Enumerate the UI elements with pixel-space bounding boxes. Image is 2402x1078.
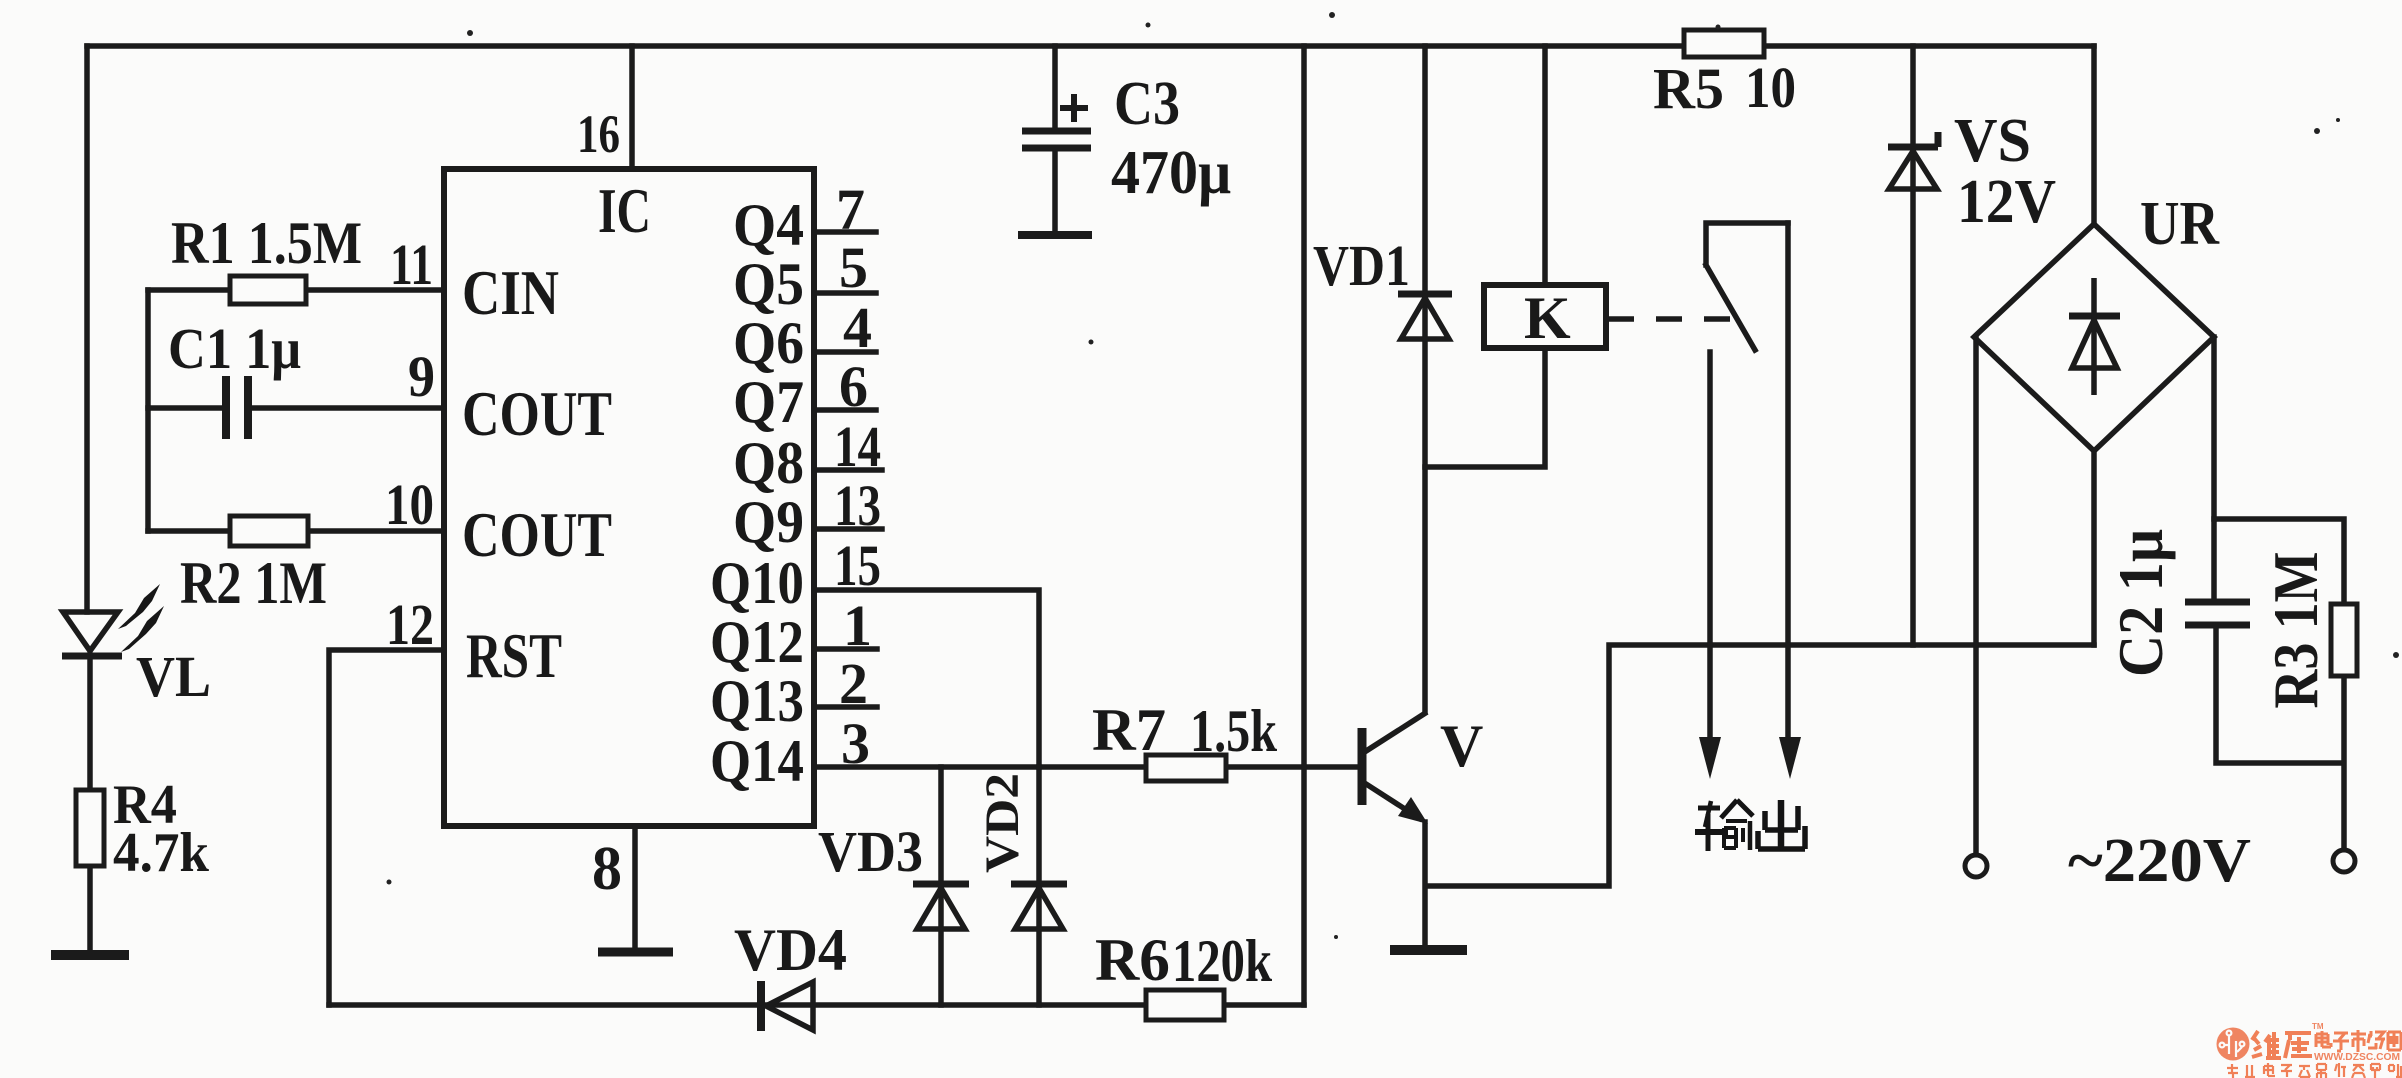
svg-text:VL: VL [136,644,211,709]
svg-text:TM: TM [2312,1022,2324,1031]
svg-text:K: K [1524,285,1571,351]
svg-text:C3: C3 [1114,70,1180,138]
svg-text:CIN: CIN [462,257,559,328]
svg-text:VD4: VD4 [734,917,847,983]
svg-text:V: V [1440,713,1483,779]
svg-text:VD3: VD3 [818,819,923,884]
svg-text:RST: RST [466,620,562,691]
svg-text:2: 2 [839,651,868,716]
svg-text:11: 11 [390,232,433,297]
svg-text:Q9: Q9 [733,489,804,555]
svg-text:R2 1M: R2 1M [180,550,327,616]
svg-text:13: 13 [834,473,881,538]
svg-text:WWW.DZSC.COM: WWW.DZSC.COM [2314,1051,2400,1063]
svg-text:5: 5 [839,235,868,300]
svg-text:12: 12 [386,592,434,657]
svg-text:R3 1M: R3 1M [2260,552,2331,709]
svg-text:3: 3 [841,711,870,776]
svg-text:14: 14 [834,414,881,479]
svg-text:6: 6 [839,354,868,419]
svg-text:Q14: Q14 [710,728,804,794]
svg-text:470μ: 470μ [1111,139,1231,207]
svg-text:~220V: ~220V [2068,827,2251,895]
svg-text:7: 7 [836,177,865,242]
svg-text:C1 1μ: C1 1μ [168,316,301,381]
svg-text:16: 16 [577,104,620,164]
svg-text:Q7: Q7 [733,369,804,435]
svg-text:10: 10 [1745,55,1796,120]
svg-text:Q4: Q4 [733,192,804,258]
svg-text:R6: R6 [1095,927,1170,993]
svg-text:Q5: Q5 [733,251,804,317]
svg-text:C2 1μ: C2 1μ [2105,529,2176,677]
svg-text:4.7k: 4.7k [113,822,210,884]
svg-text:Q12: Q12 [710,609,804,675]
svg-text:Q8: Q8 [733,430,804,496]
svg-text:12V: 12V [1957,168,2056,236]
svg-text:COUT: COUT [462,378,612,449]
svg-text:9: 9 [408,344,435,409]
svg-text:Q13: Q13 [710,668,804,734]
svg-text:R7: R7 [1092,697,1166,763]
svg-text:R1 1.5M: R1 1.5M [171,210,362,276]
svg-text:IC: IC [598,175,651,246]
svg-text:Q10: Q10 [710,550,804,616]
svg-text:15: 15 [834,533,881,598]
svg-text:VD1: VD1 [1313,233,1410,298]
svg-text:1: 1 [843,593,872,658]
svg-text:R5: R5 [1653,56,1724,121]
svg-text:1.5k: 1.5k [1190,698,1278,764]
svg-text:4: 4 [843,295,872,360]
svg-text:COUT: COUT [462,499,612,570]
svg-text:Q6: Q6 [733,310,804,376]
svg-text:120k: 120k [1172,928,1273,994]
svg-text:VS: VS [1954,107,2031,175]
svg-text:UR: UR [2140,190,2220,258]
svg-text:VD2: VD2 [976,773,1029,873]
svg-text:10: 10 [385,472,434,537]
svg-text:8: 8 [592,835,622,903]
